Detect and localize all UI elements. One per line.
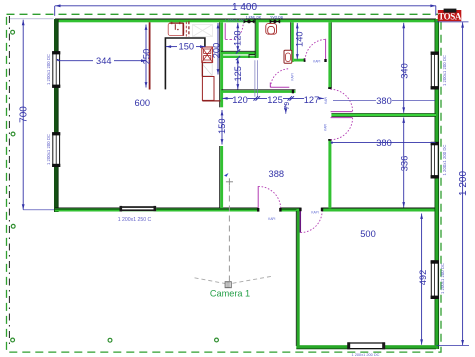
svg-text:YVQ.DB: YVQ.DB	[270, 15, 283, 19]
svg-text:380: 380	[376, 138, 392, 148]
svg-text:1 200x1 200 DC: 1 200x1 200 DC	[352, 352, 380, 357]
svg-text:150: 150	[179, 42, 195, 52]
svg-text:1 200x1 200 DC: 1 200x1 200 DC	[442, 144, 447, 175]
svg-text:388: 388	[269, 169, 285, 179]
svg-text:250: 250	[142, 49, 152, 65]
svg-text:140: 140	[294, 31, 304, 47]
svg-text:KAPI: KAPI	[311, 211, 318, 215]
svg-text:1 400: 1 400	[232, 2, 257, 13]
svg-text:1 200x1 400: 1 200x1 400	[225, 18, 245, 22]
svg-text:1 200x1 250 C: 1 200x1 250 C	[118, 217, 152, 223]
svg-text:1 200x1 200 DC: 1 200x1 200 DC	[442, 55, 447, 86]
svg-text:700: 700	[19, 106, 30, 123]
svg-text:1 200x1 200 DC: 1 200x1 200 DC	[46, 54, 51, 85]
svg-text:KAPI: KAPI	[291, 73, 295, 80]
svg-text:500: 500	[360, 229, 376, 239]
svg-text:1 200: 1 200	[458, 171, 469, 196]
svg-text:79: 79	[284, 102, 291, 110]
svg-text:120: 120	[233, 30, 243, 46]
svg-text:1 200x1 200 DC: 1 200x1 200 DC	[46, 134, 51, 165]
svg-text:336: 336	[400, 156, 410, 172]
svg-text:TOSA: TOSA	[438, 11, 462, 21]
svg-text:492: 492	[418, 270, 428, 286]
svg-text:380: 380	[376, 96, 392, 106]
svg-text:200: 200	[211, 43, 221, 59]
svg-text:1 200x1 200 DC: 1 200x1 200 DC	[440, 263, 445, 294]
svg-text:600: 600	[135, 98, 151, 108]
svg-text:KAPI: KAPI	[313, 60, 320, 64]
svg-text:125: 125	[267, 95, 283, 105]
svg-text:Camera 1: Camera 1	[210, 288, 250, 298]
svg-text:125: 125	[233, 66, 243, 82]
svg-text:340: 340	[400, 63, 410, 79]
svg-text:120: 120	[232, 95, 248, 105]
svg-text:127: 127	[304, 95, 320, 105]
svg-text:KAPI: KAPI	[268, 217, 275, 221]
svg-text:1.KML.DK: 1.KML.DK	[246, 15, 262, 19]
svg-text:KAPI: KAPI	[324, 97, 328, 104]
svg-text:150: 150	[217, 118, 227, 134]
svg-text:KAPI: KAPI	[323, 124, 327, 131]
svg-text:344: 344	[96, 56, 112, 66]
